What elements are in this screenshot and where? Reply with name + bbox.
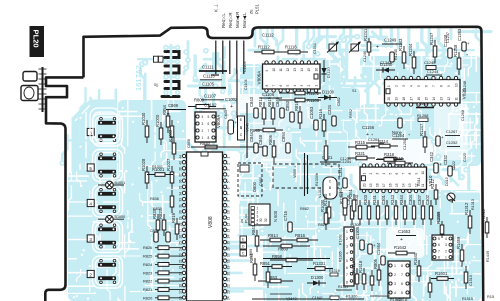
svg-text:C307: C307: [417, 194, 422, 205]
svg-text:2: 2: [445, 249, 447, 253]
svg-text:4: 4: [382, 173, 386, 175]
svg-text:C1103: C1103: [243, 61, 247, 72]
svg-text:D1110: D1110: [327, 67, 331, 78]
svg-text:6: 6: [424, 85, 428, 87]
module D800: [238, 163, 262, 196]
resistor R858: [270, 259, 313, 261]
svg-text:D1240: D1240: [380, 62, 393, 67]
svg-text:R1642: R1642: [394, 245, 407, 250]
svg-text:R823: R823: [143, 270, 152, 275]
svg-text:38: 38: [179, 167, 183, 171]
svg-text:R1116: R1116: [285, 45, 297, 50]
svg-text:3: 3: [346, 244, 348, 248]
svg-text:C1156: C1156: [362, 125, 375, 130]
capacitor C828: [166, 232, 170, 242]
svg-text:R816: R816: [294, 100, 299, 111]
svg-text:R806: R806: [373, 258, 378, 269]
resistor R1331: [307, 268, 333, 270]
svg-text:+: +: [330, 164, 333, 170]
copper solid zones: [68, 56, 481, 301]
svg-text:16: 16: [227, 247, 231, 251]
wire node A: [236, 70, 238, 118]
svg-text:3: 3: [227, 169, 231, 171]
svg-text:R862: R862: [300, 207, 309, 211]
svg-text:R1028: R1028: [141, 158, 146, 171]
svg-text:C1252: C1252: [446, 140, 457, 145]
svg-text:23: 23: [227, 290, 231, 294]
svg-text:6: 6: [208, 122, 210, 126]
svg-text:14: 14: [401, 183, 405, 187]
svg-text:3: 3: [445, 243, 447, 247]
svg-text:5: 5: [257, 223, 259, 227]
resistor R813: [263, 102, 265, 125]
svg-text:R1000: R1000: [155, 114, 160, 127]
pin1 crossbar: [211, 74, 219, 76]
resistor R860: [263, 245, 310, 247]
capacitor C854: [286, 143, 290, 153]
svg-text:1: 1: [314, 85, 318, 87]
svg-text:10: 10: [454, 83, 458, 87]
trace separation veins: [68, 56, 481, 301]
svg-text:3: 3: [375, 173, 379, 175]
copper pads: [59, 34, 477, 301]
svg-text:+: +: [400, 237, 403, 243]
svg-text:R1330b: R1330b: [315, 173, 319, 186]
svg-text:2: 2: [394, 273, 396, 277]
svg-text:22: 22: [179, 259, 183, 263]
svg-text:5: 5: [401, 291, 403, 295]
svg-text:13: 13: [227, 229, 231, 233]
wire W2: [263, 258, 330, 260]
svg-text:8: 8: [346, 280, 348, 284]
svg-text:R312: R312: [430, 178, 435, 189]
resistor R314: [371, 145, 398, 147]
resistor R1316: [356, 268, 358, 290]
svg-text:C1247: C1247: [446, 32, 450, 43]
svg-text:20: 20: [227, 272, 231, 276]
svg-text:7: 7: [208, 129, 210, 133]
resistor R819b: [176, 218, 178, 240]
svg-text:5: 5: [417, 85, 421, 87]
svg-text:R1320: R1320: [346, 294, 358, 299]
svg-text:C1264: C1264: [368, 137, 380, 142]
svg-text:31: 31: [179, 204, 183, 208]
svg-text:2: 2: [202, 129, 204, 133]
svg-text:C1107: C1107: [204, 94, 217, 99]
transistor V845: [238, 116, 245, 140]
resistor R1112: [254, 51, 282, 53]
svg-text:21: 21: [227, 278, 231, 282]
svg-text:11: 11: [421, 183, 425, 187]
svg-text:R1449: R1449: [486, 251, 490, 262]
svg-text:N 600: N 600: [273, 210, 278, 222]
svg-text:36: 36: [179, 179, 183, 183]
resistor R827: [163, 214, 165, 236]
plug body 1: [23, 72, 37, 82]
svg-text:6: 6: [438, 243, 440, 247]
svg-text:+: +: [376, 45, 379, 51]
resistor R1053: [171, 190, 173, 213]
svg-text:R1030: R1030: [320, 199, 325, 212]
svg-text:7: 7: [272, 85, 276, 87]
svg-text:C323: C323: [463, 153, 467, 162]
svg-text:17: 17: [382, 183, 386, 187]
svg-text:16: 16: [417, 97, 421, 101]
svg-text:R315: R315: [355, 140, 366, 145]
svg-text:6: 6: [279, 85, 283, 87]
resistor R814: [260, 239, 291, 241]
svg-text:C1113: C1113: [203, 74, 215, 79]
svg-text:C: C: [242, 252, 245, 256]
svg-text:R1027: R1027: [166, 158, 171, 171]
svg-text:8: 8: [265, 85, 269, 87]
resistor R1244: [413, 51, 415, 74]
resistor R1030: [146, 120, 148, 143]
svg-text:R1244: R1244: [408, 43, 413, 56]
svg-text:R311: R311: [417, 177, 421, 186]
svg-text:13: 13: [408, 183, 412, 187]
svg-text:14: 14: [227, 235, 231, 239]
svg-text:C1268: C1268: [461, 110, 465, 121]
svg-text:C1653: C1653: [398, 229, 411, 234]
svg-text:1: 1: [387, 85, 391, 87]
svg-text:26: 26: [179, 235, 183, 239]
svg-text:C715: C715: [283, 210, 288, 221]
svg-text:PL20: PL20: [32, 30, 41, 48]
svg-text:32: 32: [264, 218, 268, 222]
svg-text:C1111: C1111: [202, 65, 214, 70]
capacitor C324: [332, 116, 336, 126]
resistor R1247b: [424, 131, 426, 153]
edge connector plug: [42, 67, 44, 112]
resistor R1247: [434, 40, 436, 63]
svg-text:43: 43: [179, 161, 183, 165]
resistor R1027: [171, 166, 173, 189]
svg-text:13: 13: [293, 68, 297, 72]
svg-text:30: 30: [259, 218, 263, 222]
svg-text:R1305: R1305: [339, 251, 343, 262]
svg-text:8: 8: [438, 256, 440, 260]
wire W3: [252, 298, 338, 300]
svg-text:37: 37: [179, 173, 183, 177]
ic V820: [385, 80, 461, 104]
svg-text:R1331: R1331: [313, 261, 326, 266]
svg-text:R819: R819: [267, 96, 272, 107]
svg-text:7: 7: [432, 85, 436, 87]
contact bracket K3: [165, 82, 179, 89]
resistor R1243: [403, 46, 405, 69]
svg-text:Rec▷:L: Rec▷:L: [221, 13, 226, 28]
ic V806A: [263, 64, 321, 89]
resistor R321: [348, 157, 375, 159]
svg-text:C1246: C1246: [363, 51, 367, 62]
transistor V311: [447, 193, 455, 201]
svg-text:C843: C843: [249, 96, 254, 107]
svg-text:R829: R829: [318, 223, 327, 227]
svg-text:33: 33: [179, 198, 183, 202]
svg-text:9: 9: [265, 70, 269, 72]
svg-text:Mon◀:R: Mon◀:R: [235, 12, 240, 28]
svg-text:R854: R854: [162, 104, 167, 115]
capacitor C715: [288, 222, 292, 232]
svg-text:C1002: C1002: [225, 97, 238, 102]
capacitor C1263: [462, 42, 466, 51]
svg-text:8: 8: [439, 85, 443, 87]
svg-text:5: 5: [89, 166, 92, 171]
capacitor C332: [448, 166, 452, 176]
resistor R315: [348, 146, 375, 148]
resistor R317: [325, 140, 327, 166]
plug body 2: [21, 86, 38, 101]
connector X1300: [344, 227, 354, 286]
svg-text:15: 15: [307, 68, 311, 72]
svg-text:2: 2: [369, 173, 373, 175]
svg-text:18: 18: [375, 183, 379, 187]
svg-text:10: 10: [421, 171, 425, 175]
svg-text:1: 1: [227, 157, 231, 159]
svg-text:B1000: B1000: [115, 215, 126, 219]
lamp B1000: [98, 218, 124, 220]
svg-text:R814: R814: [268, 233, 279, 238]
transistor V869: [240, 236, 247, 242]
resistor R361: [353, 194, 355, 217]
svg-text:R1319: R1319: [329, 269, 340, 273]
svg-text:1: 1: [346, 230, 348, 234]
board outline left notches: [45, 77, 83, 301]
svg-text:R321: R321: [355, 151, 366, 156]
svg-text:28: 28: [179, 222, 183, 226]
resistor R1000: [160, 122, 162, 145]
svg-text:16: 16: [314, 68, 318, 72]
capacitor C1554: [381, 256, 385, 265]
svg-text:10: 10: [272, 68, 276, 72]
svg-text:24: 24: [179, 247, 183, 251]
svg-text:5: 5: [346, 259, 348, 263]
svg-text:+: +: [466, 53, 468, 57]
svg-text:R1247: R1247: [419, 123, 424, 136]
svg-text:5: 5: [286, 85, 290, 87]
svg-text:C1102: C1102: [204, 103, 217, 108]
resistor R1601: [431, 278, 454, 280]
svg-text:4: 4: [293, 85, 297, 87]
resistor R840: [255, 129, 283, 131]
svg-text:V809A: V809A: [216, 115, 221, 128]
ic V810: [360, 167, 427, 190]
trace K column: [166, 45, 178, 95]
svg-text:4: 4: [202, 115, 204, 119]
svg-text:C808: C808: [187, 139, 191, 148]
svg-text:C848: C848: [258, 134, 263, 145]
svg-text:R1469: R1469: [456, 236, 461, 249]
capacitor C846: [280, 108, 284, 118]
svg-text:+: +: [371, 133, 373, 137]
svg-text:3: 3: [300, 85, 304, 87]
resistor R312: [435, 184, 437, 205]
svg-text:R861: R861: [249, 252, 254, 263]
svg-text:C1515: C1515: [469, 275, 473, 286]
svg-text:C1051: C1051: [313, 43, 317, 54]
top connector pins zu PL51: [215, 41, 217, 75]
svg-text:25: 25: [179, 241, 183, 245]
svg-text:R816: R816: [295, 233, 306, 238]
svg-text:R1030: R1030: [141, 112, 146, 125]
capacitor C1304: [368, 244, 372, 254]
svg-text:12: 12: [286, 68, 290, 72]
svg-text:8: 8: [208, 136, 210, 140]
svg-text:C1249: C1249: [384, 38, 397, 43]
copper traces: [62, 28, 491, 301]
svg-text:R303: R303: [363, 194, 368, 205]
svg-text:14: 14: [432, 97, 436, 101]
svg-text:C341: C341: [338, 166, 343, 177]
svg-text:44: 44: [179, 155, 183, 159]
svg-text:C854: C854: [281, 131, 286, 142]
svg-text:+: +: [439, 162, 442, 167]
svg-text:17: 17: [409, 97, 413, 101]
connector zu PL44: [249, 204, 270, 225]
svg-text:4: 4: [394, 291, 396, 295]
resistor R854: [167, 110, 169, 133]
svg-text:23: 23: [179, 253, 183, 257]
svg-text:+: +: [230, 104, 233, 110]
svg-text:R1640: R1640: [413, 252, 418, 265]
svg-text:4: 4: [89, 201, 92, 206]
svg-text:6: 6: [401, 282, 403, 286]
resistor R1614: [371, 270, 373, 291]
board outline: [84, 27, 484, 301]
svg-text:C: C: [329, 180, 332, 184]
svg-text:R1241: R1241: [363, 28, 368, 41]
svg-text:1: 1: [202, 136, 204, 140]
svg-text:zu: zu: [240, 219, 244, 223]
svg-text:8: 8: [408, 173, 412, 175]
svg-text:C1248: C1248: [463, 81, 467, 92]
svg-text:V808: V808: [208, 216, 214, 228]
svg-text:12: 12: [447, 97, 451, 101]
svg-text:7: 7: [401, 173, 405, 175]
svg-text:R822: R822: [143, 279, 152, 284]
svg-text:5: 5: [227, 181, 231, 183]
svg-text:3: 3: [402, 85, 406, 87]
svg-text:C1244: C1244: [427, 69, 439, 74]
svg-text:V1300: V1300: [350, 223, 360, 227]
svg-text:R836: R836: [150, 197, 159, 201]
svg-text:30: 30: [179, 210, 183, 214]
svg-text:C846: C846: [275, 96, 280, 107]
svg-text:R1001: R1001: [152, 165, 163, 169]
op-amp V809A: [195, 112, 216, 142]
svg-text:R343: R343: [390, 194, 395, 205]
svg-text:R1243: R1243: [398, 38, 403, 51]
svg-text:zu: zu: [249, 9, 254, 14]
svg-text:R1316: R1316: [351, 260, 356, 273]
svg-text:19: 19: [394, 97, 398, 101]
svg-text:6: 6: [346, 266, 348, 270]
svg-text:16: 16: [388, 183, 392, 187]
svg-text:C1251: C1251: [403, 139, 407, 150]
resistor R1002: [173, 137, 175, 160]
svg-text:27: 27: [179, 229, 183, 233]
diode D1300: [313, 280, 319, 285]
svg-text:V859: V859: [293, 169, 297, 178]
svg-text:+: +: [408, 133, 410, 137]
svg-text:15: 15: [227, 241, 231, 245]
svg-text:4: 4: [445, 237, 447, 241]
resistor R816a: [299, 106, 301, 129]
svg-text:+: +: [441, 135, 444, 140]
resistor R1516: [465, 266, 467, 289]
svg-text:R835: R835: [153, 207, 162, 211]
svg-text:16: 16: [179, 296, 183, 300]
svg-text:22: 22: [227, 284, 231, 288]
svg-text:D1100: D1100: [322, 90, 335, 95]
svg-text:R1518: R1518: [358, 260, 363, 273]
svg-text:29: 29: [179, 216, 183, 220]
svg-text:Mon◀:L: Mon◀:L: [242, 12, 247, 28]
svg-text:4: 4: [227, 175, 231, 177]
capacitor C1266b: [398, 118, 402, 128]
svg-text:R840: R840: [200, 141, 211, 146]
capacitor C1248a: [448, 48, 452, 58]
resistor R1106: [279, 99, 321, 101]
svg-text:R851: R851: [260, 261, 271, 266]
svg-text:17: 17: [227, 253, 231, 257]
op-amp V1614: [388, 261, 410, 298]
svg-text:17: 17: [179, 290, 183, 294]
svg-text:15: 15: [395, 183, 399, 187]
resistor R1469i: [461, 244, 463, 267]
resistor R1001: [147, 174, 173, 176]
svg-text:C1112: C1112: [262, 33, 274, 38]
svg-text:R813: R813: [258, 96, 263, 107]
svg-text:19: 19: [369, 183, 373, 187]
svg-text:12: 12: [227, 222, 231, 226]
svg-text:R319: R319: [393, 156, 404, 161]
svg-text:6: 6: [227, 187, 231, 189]
svg-text:R825: R825: [143, 254, 152, 259]
svg-text:R852: R852: [349, 109, 353, 118]
svg-text:13: 13: [439, 97, 443, 101]
svg-text:S1: S1: [352, 89, 357, 93]
svg-text:2: 2: [227, 163, 231, 165]
resistor R861: [254, 258, 256, 281]
svg-text:D1300: D1300: [311, 275, 324, 280]
capacitor C361: [343, 198, 347, 208]
svg-text:C: C: [240, 133, 243, 137]
capacitor C1246: [390, 52, 394, 62]
svg-text:C844: C844: [249, 131, 254, 142]
svg-text:+: +: [294, 165, 296, 169]
svg-text:11: 11: [227, 217, 231, 221]
svg-text:R1302: R1302: [339, 234, 343, 245]
capacitor C844: [254, 143, 258, 153]
svg-text:C1554: C1554: [376, 242, 381, 255]
svg-text:C322: C322: [452, 161, 456, 170]
svg-text:C1106: C1106: [262, 92, 275, 97]
svg-text:20: 20: [362, 183, 366, 187]
svg-text:C853: C853: [285, 100, 290, 111]
svg-text:PL51: PL51: [255, 4, 260, 14]
resistor R319: [387, 162, 413, 164]
svg-text:R821: R821: [143, 287, 152, 292]
resistor R1341: [344, 199, 346, 221]
svg-text:R1268: R1268: [417, 113, 428, 118]
pour clearance rings: [93, 112, 117, 140]
svg-text:1617A2: 1617A2: [134, 65, 143, 91]
svg-text:3: 3: [202, 122, 204, 126]
resistor R1512: [486, 217, 488, 238]
contact bracket K1: [165, 52, 179, 58]
